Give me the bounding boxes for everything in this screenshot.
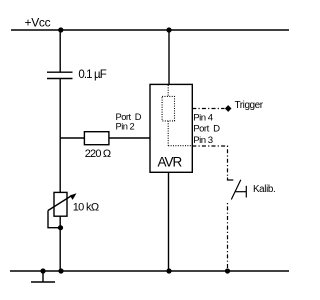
internal dotted sensor resistor inside AVR [162, 85, 191, 146]
svg-text:AVR: AVR [158, 154, 183, 169]
wire top +Vcc rail [11, 29, 289, 31]
resistor R1 220 ohm body [84, 132, 109, 145]
svg-text:Kalib.: Kalib. [253, 184, 275, 195]
node junction dots [40, 27, 230, 273]
wire Vcc rail down to AVR top pin [168, 30, 170, 84]
svg-text:Pin 3: Pin 3 [193, 135, 213, 146]
ground symbol [31, 271, 55, 282]
svg-text:10 kΩ: 10 kΩ [73, 202, 99, 214]
svg-text:Pin 4: Pin 4 [193, 112, 214, 123]
wire Vcc rail down to capacitor [59, 30, 61, 72]
wire dash-dot Pin 3 line to switch [192, 146, 227, 178]
svg-text:220 Ω: 220 Ω [85, 148, 111, 160]
wire bottom ground rail [10, 270, 289, 272]
potentiometer R2 10 kohm body [54, 192, 67, 216]
wire junction to resistor R1 [60, 137, 84, 139]
wire dash-dot Trigger line from Pin 4 [192, 108, 224, 110]
capacitor C1 0.1 uF plates [47, 72, 73, 78]
wire wiper to bottom terminal of R2 [48, 211, 60, 228]
wire AVR bottom pin to ground rail [168, 172, 170, 271]
svg-text:+Vcc: +Vcc [25, 16, 51, 30]
wire resistor R1 to AVR Port D Pin 2 [109, 137, 150, 139]
svg-text:Pin 2: Pin 2 [116, 122, 135, 132]
svg-text:Port D: Port D [116, 112, 142, 122]
op-amp U1 AVR box [150, 84, 192, 172]
svg-text:0.1 µF: 0.1 µF [78, 69, 106, 81]
potentiometer wiper arrow shaft [48, 195, 72, 210]
wire potentiometer to ground rail [59, 216, 61, 271]
svg-text:Port D: Port D [193, 124, 220, 135]
wire dash-dot switch to ground rail [227, 203, 229, 271]
svg-text:Trigger: Trigger [235, 100, 264, 111]
node Trigger diamond [225, 105, 232, 112]
switch S1 Kalib. [228, 178, 247, 200]
potentiometer arrowhead [70, 193, 77, 200]
wire capacitor down to potentiometer [59, 79, 61, 193]
